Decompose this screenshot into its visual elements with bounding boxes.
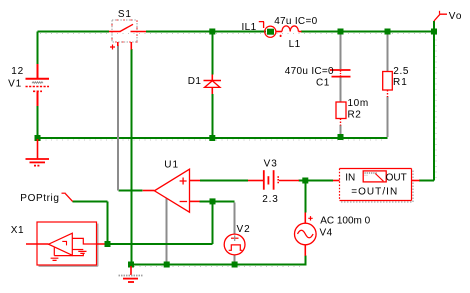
svg-text:Vo: Vo: [449, 11, 463, 22]
svg-text:V2: V2: [237, 224, 251, 235]
ground bottom left: [119, 266, 143, 282]
wire X1 output net horizontal: [111, 243, 213, 245]
svg-text:D1: D1: [188, 76, 202, 87]
node junction D1 bottom: [209, 135, 215, 141]
wire R1 bottom (grey): [387, 97, 389, 138]
source V4 (AC): [295, 213, 317, 256]
node junction R1 top: [385, 29, 391, 35]
wire top rail left (V1 to S1): [38, 31, 110, 33]
battery V1: [26, 64, 50, 106]
wire bottom ground rail: [131, 264, 305, 266]
block OUT/IN transfer function: [333, 169, 420, 203]
inductor L1: [276, 26, 301, 37]
wire opamp ground pin (grey): [165, 198, 167, 264]
svg-text:R1: R1: [393, 77, 408, 88]
wire V1 bottom column: [37, 106, 39, 138]
svg-text:IL1: IL1: [242, 22, 257, 33]
resistor R2: [336, 102, 346, 126]
resistor R1: [383, 72, 393, 98]
wire mid ground rail: [38, 137, 388, 139]
node junction Vo: [431, 29, 437, 35]
svg-text:U1: U1: [164, 160, 179, 171]
node junction X1 output: [105, 241, 111, 247]
source V2 (pulse generator): [224, 234, 245, 255]
svg-text:C1: C1: [316, 77, 330, 88]
wire S1 left control (grey): [117, 46, 119, 191]
svg-text:L1: L1: [289, 39, 301, 50]
svg-text:AC 100m 0: AC 100m 0: [320, 216, 370, 227]
macro X1 (POPtrig block): [26, 222, 105, 266]
wire POPtrig down column: [107, 202, 109, 244]
node junction V2 bottom rail: [232, 262, 238, 268]
wire V1 top column: [37, 32, 39, 65]
wire opamp output: [118, 190, 142, 192]
svg-text:IN: IN: [345, 173, 355, 184]
node junction V1-ground mid rail: [35, 135, 41, 141]
pin Vo: [434, 11, 447, 31]
wire top rail S1 to IL1 probe: [146, 31, 266, 33]
node junction R2 bottom: [338, 134, 344, 140]
svg-text:POPtrig: POPtrig: [20, 193, 59, 204]
wire S1 right control to bottom rail: [130, 49, 132, 264]
wire opamp -in net: [199, 200, 234, 202]
wire D1 top: [211, 32, 213, 75]
battery V3: [248, 170, 299, 190]
wire D1 bottom: [211, 94, 213, 138]
wire right column Vo to OUT corner: [433, 32, 435, 181]
svg-text:V3: V3: [264, 159, 278, 170]
svg-text:47u IC=0: 47u IC=0: [274, 16, 317, 27]
wire X1 net vertical to -in junction: [211, 202, 213, 244]
node junction V3-V4: [302, 178, 308, 184]
node junction opamp gnd rail: [164, 262, 170, 268]
switch S1: [109, 20, 146, 50]
node junction D1 top: [209, 29, 215, 35]
wire top rail L1 to Vo junction: [301, 31, 434, 33]
wire POPtrig horizontal: [72, 201, 107, 203]
node junction -in: [210, 198, 216, 204]
ground below V1: [26, 139, 50, 166]
node junction bottom rail ground: [128, 262, 134, 268]
svg-text:V4: V4: [320, 228, 333, 239]
capacitor C1: [330, 70, 351, 77]
wire V3 junction to IN pin: [306, 180, 333, 182]
op-amp U1: [143, 169, 200, 212]
svg-text:V1: V1: [8, 78, 22, 89]
wire R1 column top (grey): [387, 33, 389, 72]
svg-text:2.5: 2.5: [393, 66, 409, 77]
wire R2 bottom (grey): [340, 125, 342, 136]
svg-text:OUT: OUT: [386, 173, 407, 184]
svg-text:=OUT/IN: =OUT/IN: [351, 187, 398, 198]
wire V3 to junction: [299, 180, 306, 182]
svg-text:R2: R2: [348, 110, 362, 121]
wire V4 bottom to rail corner: [304, 256, 305, 265]
wire V2 top column (grey): [234, 202, 236, 234]
svg-text:S1: S1: [118, 9, 132, 20]
wire C1 column top (grey): [340, 33, 342, 70]
svg-text:470u IC=0: 470u IC=0: [285, 66, 334, 77]
svg-text:X1: X1: [11, 225, 24, 236]
svg-text:10m: 10m: [348, 98, 369, 109]
node junction C1 top: [338, 29, 344, 35]
diode D1: [204, 75, 222, 95]
pin POPtrig: [62, 193, 73, 201]
wire V4 top column: [304, 182, 306, 213]
wire V2 bottom (grey): [234, 255, 236, 262]
wire opamp +in to V3: [200, 180, 248, 182]
wire OUT pin to right column: [419, 180, 434, 182]
wire C1 to R2 (grey): [340, 78, 342, 103]
svg-text:12: 12: [11, 66, 24, 77]
ammeter probe IL1: [259, 22, 276, 38]
svg-text:2.3: 2.3: [262, 194, 278, 205]
